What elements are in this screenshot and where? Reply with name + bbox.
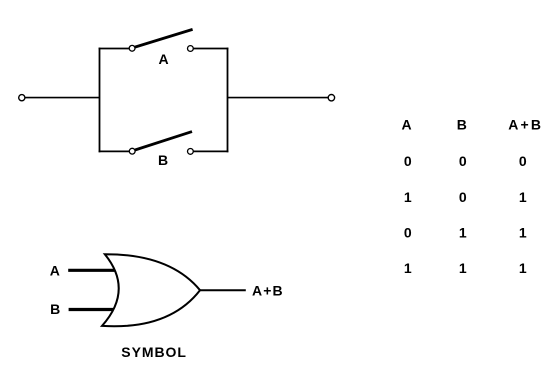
svg-text:1: 1	[519, 260, 527, 276]
svg-text:1: 1	[459, 260, 467, 276]
wire gate input B	[69, 308, 118, 311]
svg-text:A+B: A+B	[508, 116, 542, 132]
svg-text:1: 1	[459, 224, 467, 240]
wire switch A to top-right	[193, 48, 228, 50]
wire right vertical (node join)	[227, 48, 229, 153]
terminal T2 (right output)	[328, 95, 334, 101]
svg-text:SYMBOL: SYMBOL	[121, 344, 187, 360]
terminal T1 (left input)	[19, 95, 25, 101]
svg-text:1: 1	[404, 260, 412, 276]
wire gate input A	[68, 269, 119, 272]
svg-text:1: 1	[519, 224, 527, 240]
switch B	[129, 132, 193, 155]
truth table row 3: 0 1 1	[404, 224, 527, 240]
truth table row 1: 0 0 0	[404, 153, 527, 169]
svg-text:B: B	[158, 152, 168, 168]
wire left vertical (node split)	[99, 48, 101, 153]
truth table row 4: 1 1 1	[404, 260, 527, 276]
svg-text:1: 1	[519, 189, 527, 205]
svg-text:B: B	[50, 301, 60, 317]
wire right output	[228, 97, 329, 99]
svg-text:1: 1	[404, 189, 412, 205]
svg-text:A: A	[402, 116, 412, 132]
wire bottom-left to switch B	[99, 150, 130, 152]
svg-text:0: 0	[404, 153, 412, 169]
wire switch B to bottom-right	[193, 150, 228, 152]
switch A	[129, 29, 193, 51]
svg-text:A+B: A+B	[252, 282, 284, 298]
svg-text:0: 0	[459, 189, 467, 205]
truth table row 2: 1 0 1	[404, 189, 527, 205]
wire left input	[25, 97, 99, 99]
wire top-left to switch A	[99, 48, 130, 50]
svg-text:0: 0	[459, 153, 467, 169]
wire gate output	[200, 289, 246, 291]
svg-text:0: 0	[404, 224, 412, 240]
svg-text:A: A	[158, 51, 168, 67]
svg-text:B: B	[457, 116, 467, 132]
OR gate U1	[102, 254, 200, 326]
svg-text:0: 0	[519, 153, 527, 169]
svg-text:A: A	[50, 263, 60, 279]
